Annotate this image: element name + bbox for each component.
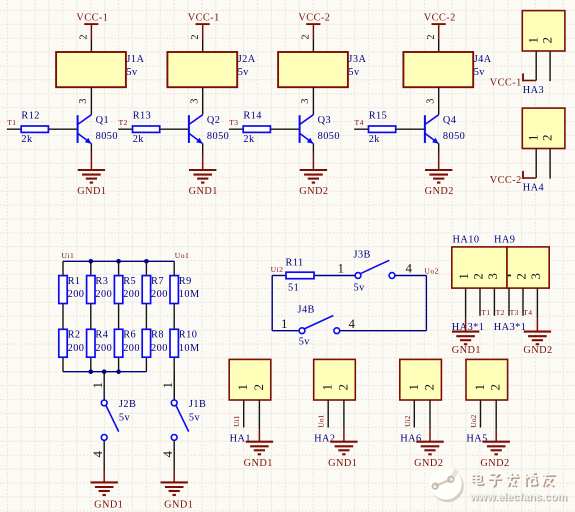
ground GND1 under Q1 bbox=[77, 154, 106, 198]
svg-text:2: 2 bbox=[488, 384, 503, 391]
wire pin2 HA9 net T4 bbox=[522, 288, 524, 316]
svg-text:Ui2: Ui2 bbox=[403, 415, 412, 427]
junction top bus at R5 bbox=[116, 259, 121, 264]
pin number 2 of HA9 bbox=[514, 273, 529, 280]
junction bottom bus at J2B tap bbox=[102, 369, 107, 374]
pin number 4 of J1B bbox=[160, 450, 175, 457]
svg-text:HA4: HA4 bbox=[523, 183, 544, 194]
svg-text:200: 200 bbox=[68, 343, 85, 354]
svg-text:HA3: HA3 bbox=[523, 85, 544, 96]
switch J4B bbox=[298, 305, 340, 348]
resistor R10 bbox=[170, 329, 200, 357]
transistor Q2 bbox=[189, 115, 229, 144]
ground GND2 under HA5 bbox=[480, 429, 510, 469]
svg-text:GND2: GND2 bbox=[523, 345, 552, 356]
svg-text:GND1: GND1 bbox=[189, 186, 218, 197]
svg-text:5v: 5v bbox=[119, 413, 131, 424]
wire pin1 of HA6 net Ui2 bbox=[413, 400, 415, 428]
svg-text:5v: 5v bbox=[126, 67, 138, 78]
net label Uo2 bbox=[469, 414, 478, 427]
wire base of Q4 bbox=[354, 128, 425, 130]
svg-text:1: 1 bbox=[525, 37, 540, 44]
svg-text:T3: T3 bbox=[229, 118, 238, 127]
wire emitter of Q3 bbox=[312, 143, 314, 153]
wire pin2 of HA5 to ground bbox=[495, 400, 497, 429]
ground GND2 under Q4 bbox=[425, 154, 454, 198]
svg-text:GND2: GND2 bbox=[425, 186, 454, 197]
svg-text:200: 200 bbox=[95, 289, 112, 300]
net label Uo1 bbox=[175, 251, 189, 260]
svg-text:200: 200 bbox=[68, 289, 85, 300]
svg-text:5v: 5v bbox=[189, 413, 201, 424]
wire pin1 of HA3 bbox=[523, 51, 536, 81]
pin number 2 of HA6 bbox=[422, 384, 437, 391]
svg-text:5v: 5v bbox=[238, 67, 250, 78]
wire pin3 of J2A to collector Q2 bbox=[202, 87, 204, 115]
pin number 2 of HA2 bbox=[335, 384, 350, 391]
svg-text:2: 2 bbox=[301, 34, 312, 39]
wire pin1 HA9 net T3 bbox=[508, 288, 510, 316]
wire J2B to ground bbox=[103, 440, 105, 470]
resistor R4 bbox=[87, 329, 113, 357]
net label T1 bbox=[7, 118, 16, 127]
svg-text:R4: R4 bbox=[95, 330, 108, 341]
svg-text:200: 200 bbox=[123, 343, 140, 354]
switch J1B bbox=[171, 399, 206, 440]
switch J2B bbox=[101, 399, 136, 440]
svg-text:3: 3 bbox=[425, 99, 436, 104]
svg-text:10M: 10M bbox=[179, 343, 200, 354]
svg-text:GND1: GND1 bbox=[452, 345, 481, 356]
ground GND1 under HA1 bbox=[244, 429, 274, 469]
pin number 1 of HA2 bbox=[320, 384, 335, 391]
resistor R12 bbox=[21, 111, 48, 146]
pin number 4 of J4B bbox=[349, 316, 356, 331]
label HA3 bbox=[523, 85, 544, 96]
svg-text:R1: R1 bbox=[68, 276, 81, 287]
resistor R14 bbox=[243, 111, 270, 146]
svg-text:HA10: HA10 bbox=[453, 235, 480, 246]
junction bottom bus at R4 bbox=[89, 369, 94, 374]
switch J3B bbox=[354, 249, 395, 293]
wire R11 to J3B bbox=[314, 275, 355, 277]
wire pin2 of HA1 to ground bbox=[258, 400, 260, 429]
wire pin2 of J2A bbox=[202, 39, 204, 52]
wire to J4B bbox=[272, 330, 299, 332]
svg-text:Uo1: Uo1 bbox=[175, 251, 189, 260]
pin number 4 of J3B bbox=[406, 261, 413, 276]
svg-text:1: 1 bbox=[406, 384, 421, 391]
svg-text:VCC-2: VCC-2 bbox=[490, 175, 522, 186]
svg-text:J3A: J3A bbox=[348, 54, 366, 65]
pin number 1 of HA9 (clipped) bbox=[508, 275, 511, 277]
svg-text:J4A: J4A bbox=[474, 54, 492, 65]
pin number 1 of J1B bbox=[160, 382, 175, 389]
power port VCC-2 bbox=[424, 12, 456, 39]
relay block J2A bbox=[167, 52, 255, 87]
pin number 2 of J1A bbox=[79, 34, 90, 39]
svg-text:1: 1 bbox=[281, 316, 288, 331]
connector HA9 bbox=[507, 247, 549, 288]
ground GND1 under HA2 bbox=[328, 429, 358, 469]
pin number 1 of HA6 bbox=[406, 384, 421, 391]
svg-text:51: 51 bbox=[288, 282, 299, 293]
pin number 1 of HA5 bbox=[472, 384, 487, 391]
svg-text:Uo2: Uo2 bbox=[469, 414, 478, 427]
svg-text:3: 3 bbox=[528, 273, 543, 280]
svg-text:HA9: HA9 bbox=[494, 235, 515, 246]
wire pin2 of J4A bbox=[438, 39, 440, 52]
pin number 1 of HA4 bbox=[525, 134, 540, 141]
svg-text:J3B: J3B bbox=[354, 249, 371, 260]
wire pin3 of J3A to collector Q3 bbox=[312, 87, 314, 115]
svg-text:GND1: GND1 bbox=[244, 458, 273, 469]
svg-text:R12: R12 bbox=[21, 111, 40, 122]
connector HA5 bbox=[466, 359, 508, 400]
svg-text:2k: 2k bbox=[133, 134, 145, 145]
svg-text:T4: T4 bbox=[523, 308, 532, 317]
svg-text:R6: R6 bbox=[123, 330, 136, 341]
connector HA3 bbox=[522, 11, 565, 51]
svg-text:2: 2 bbox=[251, 384, 266, 391]
wire J4B to right side bbox=[340, 330, 427, 332]
svg-text:HA3*1: HA3*1 bbox=[494, 322, 527, 333]
svg-text:1: 1 bbox=[525, 134, 540, 141]
label HA1 bbox=[230, 434, 251, 445]
label HA9 bbox=[494, 235, 515, 246]
resistor R7 bbox=[142, 276, 168, 304]
junction bottom bus at R6 bbox=[116, 369, 121, 374]
svg-text:5v: 5v bbox=[474, 67, 486, 78]
svg-text:2: 2 bbox=[539, 134, 554, 141]
svg-text:8050: 8050 bbox=[318, 131, 340, 142]
wire pin3 of J1A to collector Q1 bbox=[90, 87, 92, 115]
connector HA6 bbox=[400, 359, 442, 400]
pin number 2 of HA1 bbox=[251, 384, 266, 391]
svg-text:T1: T1 bbox=[7, 118, 16, 127]
svg-text:8050: 8050 bbox=[96, 131, 118, 142]
connector HA10 bbox=[452, 247, 507, 288]
wire pin2 of HA2 to ground bbox=[343, 400, 345, 429]
svg-text:Ui1: Ui1 bbox=[62, 251, 75, 260]
pin number 2 of HA3 bbox=[539, 37, 554, 44]
pin number 2 of J3A bbox=[301, 34, 312, 39]
svg-text:GND1: GND1 bbox=[94, 500, 123, 511]
wire base of Q2 bbox=[118, 128, 189, 130]
pin number 4 of J2B bbox=[90, 450, 105, 457]
svg-text:R5: R5 bbox=[123, 276, 136, 287]
wire pin2 of HA3 bbox=[549, 51, 551, 81]
svg-text:T2: T2 bbox=[496, 308, 505, 317]
svg-text:2: 2 bbox=[539, 37, 554, 44]
svg-text:2: 2 bbox=[335, 384, 350, 391]
net label T3 bbox=[510, 308, 519, 317]
svg-text:R2: R2 bbox=[68, 330, 81, 341]
svg-text:R14: R14 bbox=[243, 111, 262, 122]
svg-text:1: 1 bbox=[338, 261, 345, 276]
svg-text:5v: 5v bbox=[354, 283, 366, 294]
svg-text:1: 1 bbox=[472, 384, 487, 391]
svg-text:2k: 2k bbox=[243, 134, 255, 145]
svg-text:2: 2 bbox=[79, 34, 90, 39]
svg-text:R3: R3 bbox=[95, 276, 108, 287]
svg-text:J4B: J4B bbox=[298, 305, 315, 316]
pin number 1 of J3B bbox=[338, 261, 345, 276]
svg-text:200: 200 bbox=[95, 343, 112, 354]
resistor R2 bbox=[59, 329, 85, 357]
svg-text:2: 2 bbox=[471, 273, 486, 280]
pin number 1 of HA1 bbox=[235, 384, 250, 391]
net label T2 bbox=[496, 308, 505, 317]
resistor R6 bbox=[114, 329, 140, 357]
svg-text:Uo1: Uo1 bbox=[317, 414, 326, 427]
resistor R1 bbox=[59, 276, 85, 304]
wire column 1 bbox=[62, 261, 64, 371]
svg-text:1: 1 bbox=[160, 382, 175, 389]
relay block J3A bbox=[278, 52, 366, 87]
svg-text:Ui1: Ui1 bbox=[232, 415, 241, 427]
svg-text:R8: R8 bbox=[151, 330, 164, 341]
svg-text:3: 3 bbox=[189, 99, 200, 104]
svg-text:R13: R13 bbox=[133, 111, 152, 122]
wire bus to J1B bbox=[173, 372, 175, 400]
net label T4 bbox=[355, 118, 364, 127]
svg-text:1: 1 bbox=[90, 382, 105, 389]
wire pin2 of J1A bbox=[90, 39, 92, 52]
label HA5 bbox=[466, 434, 487, 445]
label HA4 bbox=[523, 183, 544, 194]
resistor R8 bbox=[142, 329, 168, 357]
svg-text:VCC-2: VCC-2 bbox=[298, 12, 330, 23]
wire pin2 of HA4 bbox=[549, 149, 551, 179]
wire column 3 bbox=[118, 261, 120, 371]
wire bottom bus bbox=[63, 371, 146, 373]
power port VCC-1 bbox=[188, 12, 220, 39]
net label T2 bbox=[119, 118, 128, 127]
svg-text:200: 200 bbox=[123, 289, 140, 300]
ground GND1 under Q2 bbox=[189, 154, 218, 198]
watermark text dianzifashaoyou bbox=[472, 472, 556, 487]
pin number 3 of HA9 bbox=[528, 273, 543, 280]
svg-text:2: 2 bbox=[422, 384, 437, 391]
resistor R13 bbox=[133, 111, 160, 146]
svg-text:3: 3 bbox=[300, 99, 311, 104]
svg-text:T3: T3 bbox=[510, 308, 519, 317]
svg-text:4: 4 bbox=[406, 261, 413, 276]
ground GND1 under J2B bbox=[91, 470, 124, 511]
svg-text:Q4: Q4 bbox=[443, 115, 457, 126]
pin number 3 of J2A bbox=[189, 99, 200, 104]
ground GND1 under HA10 bbox=[452, 318, 481, 356]
net label Uo2 bbox=[424, 266, 438, 275]
svg-text:R9: R9 bbox=[179, 276, 192, 287]
ground GND1 under J1B bbox=[161, 470, 194, 511]
transistor Q3 bbox=[300, 115, 340, 144]
pin number 1 of HA3 bbox=[525, 37, 540, 44]
wire pin3 HA9 to ground bbox=[536, 288, 538, 318]
net label Ui1 bbox=[232, 415, 241, 427]
wire top bus bbox=[63, 260, 174, 262]
wire right side down bbox=[425, 276, 427, 331]
svg-text:J1A: J1A bbox=[126, 54, 144, 65]
svg-text:J2B: J2B bbox=[119, 399, 136, 410]
svg-text:www.elecfans.com: www.elecfans.com bbox=[469, 491, 567, 503]
svg-text:R11: R11 bbox=[286, 258, 304, 269]
wire pin3 HA10 net T2 bbox=[493, 288, 495, 316]
net label Uo1 bbox=[317, 414, 326, 427]
wire J3B to Uo2 corner bbox=[395, 275, 427, 277]
wire J1B to ground bbox=[173, 440, 175, 470]
label HA3*1 right bbox=[494, 322, 527, 333]
svg-text:GND2: GND2 bbox=[299, 186, 328, 197]
pin number 2 of J2A bbox=[190, 34, 201, 39]
resistor R15 bbox=[369, 111, 396, 146]
transistor Q1 bbox=[78, 115, 118, 144]
svg-text:2: 2 bbox=[514, 273, 529, 280]
connector HA1 bbox=[229, 359, 271, 400]
junction top bus at R7 bbox=[144, 259, 149, 264]
svg-text:2: 2 bbox=[190, 34, 201, 39]
svg-text:Q2: Q2 bbox=[207, 115, 221, 126]
wire pin1 of HA1 net Ui1 bbox=[243, 400, 245, 428]
svg-text:4: 4 bbox=[160, 450, 175, 457]
relay block J1A bbox=[56, 52, 144, 87]
pin number 3 of J4A bbox=[425, 99, 436, 104]
relay block J4A bbox=[403, 52, 491, 87]
wire pin1 of HA5 net Uo2 bbox=[480, 400, 482, 428]
net label T1 bbox=[481, 308, 490, 317]
svg-text:2: 2 bbox=[426, 34, 437, 39]
wire base of Q3 bbox=[229, 128, 300, 130]
svg-text:1: 1 bbox=[320, 384, 335, 391]
wire Ui2 to R11 bbox=[272, 275, 286, 277]
watermark text www.elecfans.com bbox=[469, 491, 569, 504]
ground GND2 under HA6 bbox=[414, 429, 444, 469]
svg-text:HA1: HA1 bbox=[230, 434, 251, 445]
wire pin3 of J4A to collector Q4 bbox=[438, 87, 440, 115]
svg-text:2k: 2k bbox=[21, 134, 33, 145]
label HA2 bbox=[314, 434, 335, 445]
svg-text:J1B: J1B bbox=[189, 399, 206, 410]
label HA6 bbox=[400, 434, 421, 445]
pin number 1 of J2B bbox=[90, 382, 105, 389]
resistor R5 bbox=[114, 276, 140, 304]
svg-text:2k: 2k bbox=[369, 134, 381, 145]
wire column 2 bbox=[90, 261, 92, 371]
svg-text:1: 1 bbox=[235, 384, 250, 391]
power port VCC-2 at HA4 bbox=[490, 171, 523, 186]
svg-text:HA2: HA2 bbox=[314, 434, 335, 445]
power port VCC-1 at HA3 bbox=[490, 73, 523, 88]
svg-text:Uo2: Uo2 bbox=[424, 266, 438, 275]
pin number 2 of HA4 bbox=[539, 134, 554, 141]
net label Ui2 bbox=[403, 415, 412, 427]
svg-text:4: 4 bbox=[349, 316, 356, 331]
power port VCC-2 bbox=[298, 12, 330, 39]
label HA3*1 left bbox=[452, 322, 485, 333]
wire emitter of Q4 bbox=[438, 143, 440, 153]
svg-text:Q1: Q1 bbox=[96, 115, 110, 126]
svg-text:R15: R15 bbox=[369, 111, 388, 122]
wire pin2 HA10 net T1 bbox=[479, 288, 481, 316]
svg-text:200: 200 bbox=[151, 343, 168, 354]
net label T4 bbox=[523, 308, 532, 317]
pin number 3 of HA10 bbox=[485, 273, 500, 280]
pin number 2 of HA5 bbox=[488, 384, 503, 391]
svg-text:GND2: GND2 bbox=[480, 458, 509, 469]
svg-text:Ui2: Ui2 bbox=[271, 265, 284, 274]
label HA10 bbox=[453, 235, 480, 246]
svg-text:200: 200 bbox=[151, 289, 168, 300]
svg-text:GND1: GND1 bbox=[164, 500, 193, 511]
wire pin2 of J3A bbox=[312, 39, 314, 52]
svg-text:VCC-1: VCC-1 bbox=[490, 78, 522, 89]
svg-text:8050: 8050 bbox=[443, 131, 465, 142]
svg-text:3: 3 bbox=[78, 99, 89, 104]
connector HA2 bbox=[314, 359, 356, 400]
net label Ui2 bbox=[271, 265, 284, 274]
svg-text:VCC-1: VCC-1 bbox=[76, 12, 108, 23]
pin number 3 of J1A bbox=[78, 99, 89, 104]
resistor R11 bbox=[286, 258, 315, 294]
transistor Q4 bbox=[425, 115, 465, 144]
svg-text:VCC-2: VCC-2 bbox=[424, 12, 456, 23]
connector HA4 bbox=[522, 108, 565, 148]
svg-text:GND1: GND1 bbox=[328, 458, 357, 469]
svg-text:VCC-1: VCC-1 bbox=[188, 12, 220, 23]
svg-text:J2A: J2A bbox=[238, 54, 256, 65]
pin number 2 of HA10 bbox=[471, 273, 486, 280]
svg-text:GND2: GND2 bbox=[414, 458, 443, 469]
svg-text:5v: 5v bbox=[299, 337, 311, 348]
junction top bus at R3 bbox=[89, 259, 94, 264]
wire pin1 of HA2 net Uo1 bbox=[327, 400, 329, 428]
svg-text:T4: T4 bbox=[355, 118, 364, 127]
svg-text:R7: R7 bbox=[151, 276, 164, 287]
wire column 5 bbox=[173, 261, 175, 400]
svg-text:8050: 8050 bbox=[207, 131, 229, 142]
wire pin1 of HA4 bbox=[523, 149, 536, 179]
pin number 3 of J3A bbox=[300, 99, 311, 104]
svg-text:4: 4 bbox=[90, 450, 105, 457]
svg-text:Q3: Q3 bbox=[318, 115, 332, 126]
pin number 1 of J4B bbox=[281, 316, 288, 331]
net label T3 bbox=[229, 118, 238, 127]
wire emitter of Q2 bbox=[202, 143, 204, 153]
wire column 4 bbox=[145, 261, 147, 371]
svg-text:R10: R10 bbox=[179, 330, 198, 341]
ground GND2 under Q3 bbox=[299, 154, 328, 198]
svg-text:HA5: HA5 bbox=[466, 434, 487, 445]
wire bus to J2B bbox=[103, 372, 105, 400]
resistor R9 bbox=[170, 276, 200, 304]
svg-text:3: 3 bbox=[485, 273, 500, 280]
svg-text:1: 1 bbox=[456, 273, 471, 280]
wire base of Q1 bbox=[7, 128, 78, 130]
svg-text:5v: 5v bbox=[348, 67, 360, 78]
resistor R3 bbox=[87, 276, 113, 304]
wire emitter of Q1 bbox=[90, 143, 92, 153]
svg-text:10M: 10M bbox=[179, 289, 200, 300]
pin number 1 of HA10 bbox=[456, 273, 471, 280]
power port VCC-1 bbox=[76, 12, 108, 39]
svg-text:HA6: HA6 bbox=[400, 434, 421, 445]
wire left side down bbox=[271, 276, 273, 331]
watermark logo circle bbox=[430, 468, 464, 503]
wire pin1 HA10 to ground bbox=[465, 288, 467, 318]
svg-text:GND1: GND1 bbox=[77, 186, 106, 197]
svg-text:T2: T2 bbox=[119, 118, 128, 127]
